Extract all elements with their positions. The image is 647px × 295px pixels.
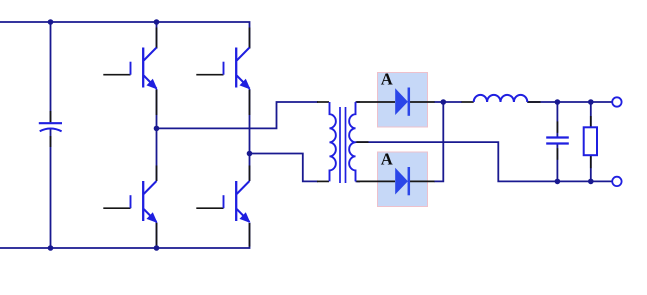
- svg-text:A: A: [381, 70, 393, 89]
- svg-text:A: A: [381, 150, 393, 169]
